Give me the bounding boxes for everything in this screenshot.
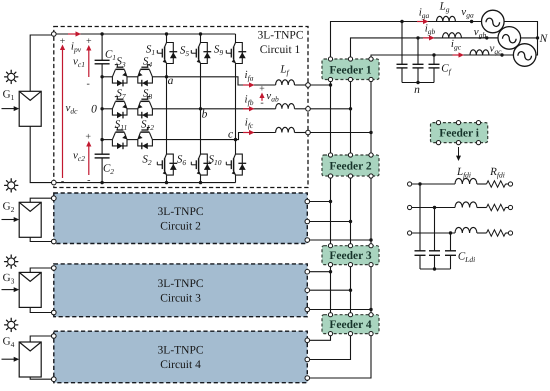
feeder box Feeder 1 — [322, 59, 379, 80]
wire branch2 right — [506, 207, 509, 209]
wire capacitor C_Ldi drop 2 — [434, 208, 436, 251]
PV panel G3 — [19, 272, 41, 307]
terminal Feeder 1 bottom x330.5 — [328, 77, 332, 81]
wire Cf tap x402 — [401, 22, 403, 65]
wire row S3/S4 mid — [127, 76, 138, 78]
wire circuit3 phase b to bus — [310, 289, 351, 291]
svg-text:Circuit 4: Circuit 4 — [160, 359, 201, 371]
sun icon G4 — [8, 321, 15, 328]
terminal Feeder 1 bottom x350.5 — [348, 77, 352, 81]
wire feeder bus b — [350, 82, 352, 153]
3L-TNPC Circuit 4 box — [54, 331, 307, 383]
terminal Feeder 4 top x371 — [369, 313, 373, 317]
wire phase a to bus — [310, 84, 330, 86]
wire capacitor C_Ldi drop 3 — [450, 233, 452, 251]
feeder box Feeder 2 — [322, 155, 379, 176]
svg-text:n: n — [414, 84, 420, 96]
wire leg 2 upper — [200, 34, 202, 43]
junction dot N — [536, 36, 539, 39]
wire riser b to grid — [351, 38, 499, 57]
wire capacitor C_Ldi tail 2 — [434, 255, 436, 269]
terminal Feeder 3 bottom x350.5 — [348, 263, 352, 267]
terminal G2- — [52, 239, 57, 244]
PV panel G2 — [19, 202, 41, 237]
terminal Feeder 2 bottom x330.5 — [328, 174, 332, 178]
IGBT S3 — [112, 70, 115, 77]
wire branch3 left — [412, 232, 455, 234]
wire feeder bus b — [350, 267, 352, 313]
wire G1 positive to circuit 1 — [30, 35, 51, 91]
wire row S3/S4 left — [102, 76, 112, 78]
capacitor Cf x418 — [413, 63, 424, 65]
wire branch1 right — [506, 183, 509, 185]
terminal Feeder i bottom x438.5 — [436, 141, 440, 145]
wire G4 positive — [30, 336, 51, 342]
wire riser a to grid — [331, 22, 482, 57]
svg-text:3L-TNPC: 3L-TNPC — [158, 344, 204, 356]
terminal Feeder 4 top x350.5 — [348, 313, 352, 317]
IGBT S7 — [112, 102, 115, 109]
terminal Feeder 2 bottom x371 — [369, 174, 373, 178]
IGBT S9 — [236, 43, 243, 64]
wire source a to N — [504, 22, 537, 56]
junction dot phase b bus — [349, 107, 352, 110]
wire row S3/S4 right — [152, 76, 166, 78]
wire grid c mid — [489, 54, 514, 56]
IGBT S12 — [138, 132, 141, 139]
svg-text:Feeder i: Feeder i — [439, 128, 480, 140]
terminal circuit1 DC+ — [52, 32, 57, 37]
svg-text:Feeder 3: Feeder 3 — [329, 250, 372, 262]
terminal Feeder 2 top x371 — [369, 153, 373, 157]
terminal phase a — [306, 83, 311, 88]
node 0 dot row3 — [100, 138, 103, 141]
svg-text:-: - — [260, 98, 263, 109]
inductor Lg phase a — [437, 16, 456, 21]
3L-TNPC Circuit 1 dashed box — [54, 27, 308, 188]
terminal Feeder 4 top x330.5 — [328, 313, 332, 317]
resistor R_fdi branch1 — [487, 181, 506, 187]
3L-TNPC Circuit 2 box — [54, 193, 307, 244]
wire G4 negative — [30, 377, 51, 379]
terminal Feeder i bottom x478.5 — [476, 141, 480, 145]
terminal circuit3 phase c — [305, 307, 310, 312]
junction dot row at leg — [234, 138, 237, 141]
current arrow i_fa — [243, 84, 251, 86]
terminal circuit1 DC- — [52, 180, 57, 185]
terminal G2+ — [52, 196, 57, 201]
terminal Feeder 3 top x350.5 — [348, 244, 352, 248]
terminal G3- — [52, 310, 57, 315]
junction dot leg1 bottom — [165, 181, 168, 184]
wire phase a — [167, 77, 276, 85]
terminal Feeder 2 top x330.5 — [328, 153, 332, 157]
wire G1 negative to circuit 1 — [30, 126, 51, 182]
junction dot phase a bus — [329, 83, 332, 86]
junction dot Cf x418 — [416, 36, 419, 39]
terminal circuit2 DC- — [52, 239, 57, 244]
junction dot leg1 top — [165, 32, 168, 35]
terminal branch1 left — [408, 182, 412, 186]
wire leg 1 upper — [166, 34, 168, 43]
wire phase c — [236, 133, 276, 140]
wire Cf bottom x402 — [401, 68, 403, 83]
sun icon G2 — [8, 182, 15, 189]
wire circuit3 phase a to bus — [310, 271, 331, 273]
wire circuit4 phase c to feeder4 — [310, 336, 372, 378]
wire leg 2 middle — [200, 64, 202, 155]
PV panel G4 — [19, 342, 41, 377]
terminal G4- — [52, 377, 57, 382]
junction dot circuit3 a — [329, 270, 332, 273]
svg-text:+: + — [85, 132, 91, 143]
junction dot circuit3 b — [349, 289, 352, 292]
svg-text:b: b — [202, 109, 208, 121]
wire circuit2 phase c to bus — [310, 239, 372, 241]
wire grid a mid — [455, 21, 481, 23]
wire Cf bottom x418 — [417, 68, 419, 83]
terminal branch3 left — [408, 231, 412, 235]
irradiance arrow into G1 — [2, 108, 16, 110]
irradiance arrow into G4 — [2, 358, 16, 360]
wire capacitor C_Ldi tail 3 — [450, 255, 452, 269]
wire feeder bus a — [330, 178, 332, 244]
resistor R_fdi branch2 — [487, 204, 506, 210]
terminal Feeder 3 bottom x330.5 — [328, 263, 332, 267]
IGBT S2 — [167, 154, 174, 175]
wire Cf tap x434 — [433, 55, 435, 64]
wire feeder bus c — [370, 267, 372, 313]
terminal branch2 right — [508, 205, 512, 209]
svg-text:c: c — [228, 129, 233, 141]
terminal Feeder 2 bottom x350.5 — [348, 174, 352, 178]
wire branch1 left — [412, 183, 455, 185]
terminal branch2 left — [408, 205, 412, 209]
junction dot circuit2 b — [349, 220, 352, 223]
IGBT S6 — [201, 154, 208, 175]
wire Cf tap x418 — [417, 38, 419, 64]
wire phase b to bus — [310, 108, 350, 110]
IGBT S5 — [201, 43, 208, 64]
AC source v_gb — [498, 27, 521, 50]
IGBT S11 — [112, 132, 115, 139]
wire circuit2 phase b to bus — [310, 221, 351, 223]
svg-text:3L-TNPC: 3L-TNPC — [158, 278, 204, 290]
wire circuit4 phase a to feeder4 — [310, 336, 331, 341]
wire leg 1 middle — [166, 64, 168, 155]
svg-text:Feeder 4: Feeder 4 — [329, 319, 372, 331]
wire C_Ldi common bus — [420, 268, 451, 270]
terminal Feeder 1 top x371 — [369, 57, 373, 61]
wire circuit3 phase c to bus — [310, 309, 372, 311]
node dot DC- at C2 — [100, 181, 103, 184]
terminal Feeder i bottom x458.5 — [456, 141, 460, 145]
wire row S11/S12 right — [152, 139, 235, 141]
current arrow i_pv — [68, 33, 77, 35]
wire DC- bottom bus — [56, 182, 236, 184]
terminal circuit4 phase a — [305, 338, 310, 343]
terminal Feeder i top x478.5 — [476, 121, 480, 125]
terminal Feeder 4 bottom x350.5 — [348, 332, 352, 336]
svg-text:Circuit 2: Circuit 2 — [160, 220, 201, 232]
wire Cf common bus — [402, 82, 434, 84]
current arrow i_gb — [423, 37, 431, 39]
wire G3 positive — [30, 268, 51, 272]
inductor L_fdi branch1 — [455, 178, 477, 184]
capacitor C_Ldi 3 — [445, 250, 456, 252]
IGBT S10 — [236, 154, 243, 175]
wire leg 3 upper — [235, 34, 237, 43]
terminal Feeder 3 bottom x371 — [369, 263, 373, 267]
wire leg 1 lower — [166, 175, 168, 183]
inductor Lg phase b — [443, 33, 462, 38]
junction dot leg2 bottom — [199, 181, 202, 184]
wire capacitor C_Ldi tail 1 — [419, 255, 421, 269]
terminal Feeder 1 bottom x371 — [369, 77, 373, 81]
voltage arrow v_c1 — [88, 49, 90, 77]
IGBT S4 — [138, 70, 141, 77]
wire row S7/S8 right — [152, 108, 200, 110]
wire phase b — [201, 108, 276, 110]
wire branch1 mid — [477, 183, 487, 185]
inductor Lf phase a — [276, 80, 295, 85]
voltage arrow v_ab — [261, 97, 263, 101]
AC source v_ga — [482, 10, 505, 33]
inductor L_fdi branch3 — [455, 227, 477, 233]
wire leg 2 lower — [200, 175, 202, 183]
svg-text:-: - — [87, 79, 90, 90]
terminal circuit2 phase c — [305, 238, 310, 243]
wire leg 3 middle — [235, 64, 237, 155]
irradiance arrow into G3 — [2, 289, 16, 291]
current arrow i_fb — [243, 108, 251, 110]
terminal circuit3 DC- — [52, 310, 57, 315]
wire neutral bus — [101, 64, 103, 154]
wire circuit4 phase b to feeder4 — [310, 336, 351, 360]
wire branch2 left — [412, 207, 455, 209]
terminal circuit4 DC+ — [52, 334, 57, 339]
wire capacitor C_Ldi drop 1 — [419, 184, 421, 251]
terminal branch3 right — [508, 231, 512, 235]
junction dot row at leg — [199, 107, 202, 110]
junction dot v_ga — [470, 20, 473, 23]
svg-text:Circuit 3: Circuit 3 — [160, 292, 201, 304]
svg-text:3L-TNPC: 3L-TNPC — [158, 206, 204, 218]
wire branch3 mid — [477, 232, 487, 234]
junction dot v_gb — [485, 36, 488, 39]
wire G2 positive — [30, 198, 51, 202]
wire feeder bus c — [370, 82, 372, 153]
wire source b to N — [521, 37, 538, 39]
IGBT S1 — [167, 43, 174, 64]
node 0 dot row2 — [100, 107, 103, 110]
inductor Lf phase b — [276, 104, 295, 109]
terminal circuit4 phase b — [305, 357, 310, 362]
terminal circuit3 phase a — [305, 269, 310, 274]
node 0 dot row1 — [100, 75, 103, 78]
junction dot row at leg — [165, 75, 168, 78]
terminal Feeder 1 top x330.5 — [328, 57, 332, 61]
terminal Feeder i top x438.5 — [436, 121, 440, 125]
terminal phase b — [306, 107, 311, 112]
terminal circuit2 phase a — [305, 199, 310, 204]
junction dot circuit2 a — [329, 200, 332, 203]
wire phase a to edge — [295, 84, 309, 86]
junction dot leg2 top — [199, 32, 202, 35]
IGBT S8 — [138, 102, 141, 109]
current arrow i_ga — [417, 21, 425, 23]
PV panel G1 — [19, 91, 41, 126]
svg-text:Feeder 1: Feeder 1 — [329, 64, 372, 76]
capacitor C_Ldi 2 — [429, 250, 440, 252]
capacitor C1 — [95, 59, 110, 61]
terminal circuit3 phase b — [305, 288, 310, 293]
terminal G4+ — [52, 334, 57, 339]
sun icon G3 — [8, 258, 15, 265]
wire branch2 mid — [477, 207, 487, 209]
junction dot branch2 — [433, 206, 436, 209]
junction dot C_Ldi bus — [433, 267, 436, 270]
wire DC+ top bus — [56, 33, 236, 35]
wire row S11/S12 mid — [127, 139, 138, 141]
capacitor C_Ldi 1 — [415, 250, 426, 252]
svg-text:+: + — [259, 84, 265, 95]
wire feeder bus b — [350, 178, 352, 244]
svg-text:3L-TNPC: 3L-TNPC — [258, 30, 304, 42]
feeder box Feeder 3 — [322, 246, 379, 265]
wire phase c to edge — [295, 132, 309, 134]
current arrow i_fc — [243, 132, 251, 134]
svg-text:N: N — [539, 33, 549, 45]
wire leg 3 lower — [235, 175, 237, 183]
junction dot branch3 — [449, 231, 452, 234]
terminal circuit3 DC+ — [52, 266, 57, 271]
terminal Feeder i top x458.5 — [456, 121, 460, 125]
wire phase c to bus — [310, 132, 371, 134]
wire row S11/S12 left — [102, 139, 112, 141]
wire G2 negative — [30, 237, 51, 241]
wire grid b mid — [461, 37, 498, 39]
terminal Feeder 1 top x350.5 — [348, 57, 352, 61]
node dot DC+ at C1 — [100, 32, 103, 35]
current arrow i_gc — [453, 54, 461, 56]
resistor R_fdi branch3 — [487, 230, 506, 236]
inductor Lg phase c — [470, 50, 489, 55]
svg-text:Circuit 1: Circuit 1 — [260, 44, 301, 56]
wire circuit2 phase a to bus — [310, 201, 331, 203]
wire phase b to edge — [295, 108, 309, 110]
capacitor Cf x434 — [429, 63, 440, 65]
terminal branch1 right — [508, 182, 512, 186]
inductor Lf phase c — [276, 127, 295, 132]
feeder box Feeder 4 — [322, 315, 379, 334]
capacitor Cf x402 — [397, 63, 408, 65]
wire feeder bus c — [370, 178, 372, 244]
terminal G3+ — [52, 266, 57, 271]
terminal phase c — [306, 130, 311, 135]
capacitor C2 — [95, 153, 110, 155]
junction dot circuit3 c — [369, 308, 372, 311]
sun icon G1 — [8, 73, 15, 80]
wire row S7/S8 mid — [127, 108, 138, 110]
junction dot n — [416, 81, 419, 84]
irradiance arrow into G2 — [2, 219, 16, 221]
arrow feeder i detail — [458, 147, 460, 157]
svg-text:Feeder 2: Feeder 2 — [329, 161, 372, 173]
svg-text:+: + — [86, 36, 92, 47]
wire DC link lower — [101, 158, 103, 183]
AC source v_gc — [513, 44, 536, 67]
inductor L_fdi branch2 — [455, 202, 477, 208]
wire row S7/S8 left — [102, 108, 112, 110]
terminal circuit4 phase c — [305, 376, 310, 381]
wire DC link upper — [101, 34, 103, 60]
wire feeder bus a — [330, 82, 332, 153]
junction dot v_gc — [500, 53, 503, 56]
wire branch3 right — [506, 232, 509, 234]
wire riser c to grid — [371, 55, 513, 57]
svg-text:-: - — [87, 175, 90, 186]
voltage arrow v_dc — [62, 49, 64, 179]
terminal Feeder 4 bottom x330.5 — [328, 332, 332, 336]
terminal circuit2 DC+ — [52, 196, 57, 201]
voltage arrow v_c2 — [88, 145, 90, 175]
junction dot phase c bus — [369, 131, 372, 134]
3L-TNPC Circuit 3 box — [54, 264, 307, 317]
junction dot branch1 — [418, 182, 421, 185]
wire G3 negative — [30, 307, 51, 312]
feeder box Feeder i — [431, 123, 488, 143]
junction dot Cf x434 — [432, 53, 435, 56]
terminal Feeder 3 top x330.5 — [328, 244, 332, 248]
terminal Feeder 3 top x371 — [369, 244, 373, 248]
wire feeder bus a — [330, 267, 332, 313]
wire Cf bottom x434 — [433, 68, 435, 83]
terminal Feeder 2 top x350.5 — [348, 153, 352, 157]
junction dot circuit2 c — [369, 238, 372, 241]
svg-text:0: 0 — [91, 104, 97, 116]
terminal Feeder 4 bottom x371 — [369, 332, 373, 336]
junction dot Cf x402 — [400, 20, 403, 23]
terminal circuit4 DC- — [52, 377, 57, 382]
terminal circuit2 phase b — [305, 219, 310, 224]
